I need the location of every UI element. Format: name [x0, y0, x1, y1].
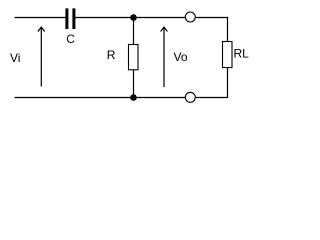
terminal bottom (open circle) [185, 92, 195, 102]
wire capacitor to node A [75, 17, 133, 19]
wire bottom-left (input to bottom terminal) [15, 97, 186, 99]
svg-text:C: C [66, 32, 75, 46]
svg-text:RL: RL [234, 47, 250, 61]
svg-text:R: R [107, 48, 116, 62]
resistor RL [223, 42, 233, 68]
wire top terminal to top-right corner [196, 18, 228, 42]
wire node A to top terminal [134, 17, 186, 19]
capacitor C [65, 8, 75, 29]
wire RL to bottom-right corner [196, 68, 228, 98]
wire resistor R to node B [133, 70, 135, 98]
arrow Vo (output voltage) [161, 27, 168, 87]
wire top-left (input to capacitor) [15, 17, 66, 19]
arrow Vi (input voltage) [38, 27, 45, 86]
svg-text:Vi: Vi [10, 51, 20, 65]
resistor R [129, 45, 139, 70]
wire node A to resistor R [133, 18, 135, 45]
svg-text:Vo: Vo [174, 50, 188, 64]
terminal top (open circle) [185, 12, 195, 22]
node A (top junction) [130, 14, 137, 21]
node B (bottom junction) [130, 94, 137, 101]
